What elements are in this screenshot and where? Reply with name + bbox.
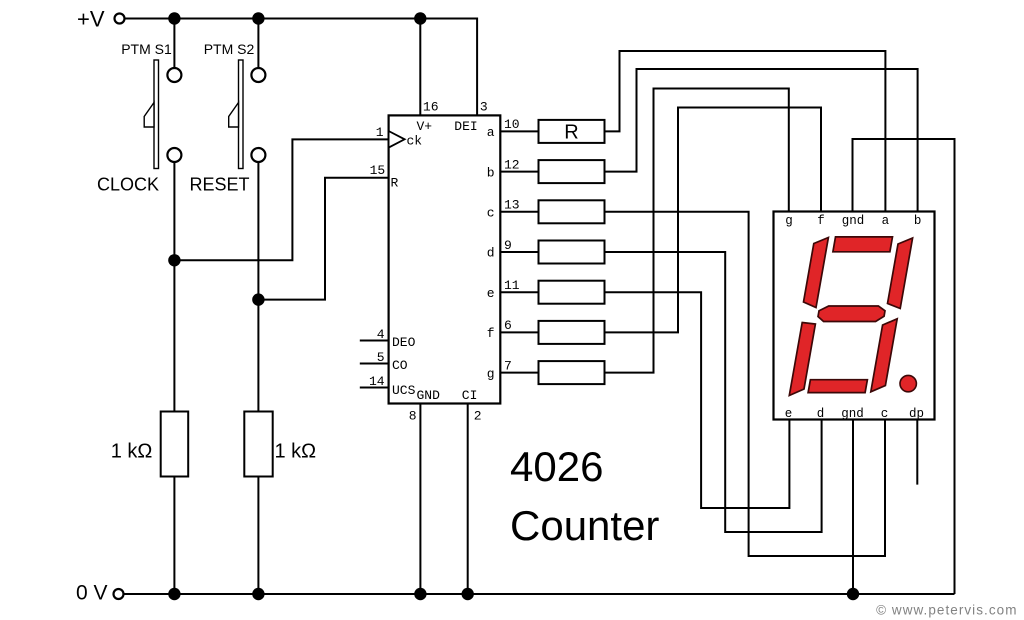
svg-text:a: a xyxy=(487,125,495,140)
svg-text:© www.petervis.com: © www.petervis.com xyxy=(876,603,1017,618)
svg-text:+V: +V xyxy=(77,7,105,32)
svg-text:13: 13 xyxy=(504,198,520,213)
svg-text:b: b xyxy=(914,214,922,228)
svg-text:UCS: UCS xyxy=(392,383,416,398)
svg-text:c: c xyxy=(881,407,889,421)
svg-text:PTM S1: PTM S1 xyxy=(121,41,172,57)
svg-text:4026: 4026 xyxy=(510,443,603,490)
svg-text:gnd: gnd xyxy=(841,407,864,421)
svg-text:5: 5 xyxy=(377,350,385,365)
svg-text:1 kΩ: 1 kΩ xyxy=(275,441,317,463)
svg-text:d: d xyxy=(817,407,825,421)
svg-text:dp: dp xyxy=(909,407,924,421)
svg-text:10: 10 xyxy=(504,117,520,132)
svg-text:CI: CI xyxy=(462,388,478,403)
svg-text:R: R xyxy=(391,176,399,191)
svg-text:9: 9 xyxy=(504,238,512,253)
svg-text:f: f xyxy=(817,214,825,228)
svg-text:g: g xyxy=(487,366,495,381)
svg-text:b: b xyxy=(487,165,495,180)
svg-text:4: 4 xyxy=(377,327,385,342)
svg-text:CLOCK: CLOCK xyxy=(97,175,159,195)
svg-text:DEI: DEI xyxy=(454,119,477,134)
svg-text:16: 16 xyxy=(423,100,439,115)
svg-text:12: 12 xyxy=(504,157,520,172)
svg-text:1 kΩ: 1 kΩ xyxy=(111,441,153,463)
svg-text:GND: GND xyxy=(417,388,441,403)
svg-text:1: 1 xyxy=(376,125,384,140)
svg-text:14: 14 xyxy=(369,374,385,389)
svg-text:3: 3 xyxy=(480,100,488,115)
svg-text:6: 6 xyxy=(504,318,512,333)
svg-text:11: 11 xyxy=(504,278,520,293)
svg-text:DEO: DEO xyxy=(392,335,416,350)
svg-text:d: d xyxy=(487,246,495,261)
svg-text:8: 8 xyxy=(409,409,417,424)
svg-text:15: 15 xyxy=(370,163,386,178)
svg-text:gnd: gnd xyxy=(842,214,865,228)
svg-text:V+: V+ xyxy=(416,119,432,134)
svg-text:f: f xyxy=(487,326,495,341)
svg-text:a: a xyxy=(882,214,890,228)
svg-text:e: e xyxy=(487,286,495,301)
svg-text:g: g xyxy=(785,214,793,228)
svg-text:7: 7 xyxy=(504,358,512,373)
svg-text:c: c xyxy=(487,206,495,221)
svg-text:CO: CO xyxy=(392,358,408,373)
svg-text:Counter: Counter xyxy=(510,502,659,549)
svg-text:PTM S2: PTM S2 xyxy=(204,41,255,57)
svg-text:2: 2 xyxy=(474,409,482,424)
svg-text:RESET: RESET xyxy=(189,175,249,195)
svg-text:e: e xyxy=(785,407,793,421)
svg-text:R: R xyxy=(564,122,578,144)
svg-text:ck: ck xyxy=(407,134,423,149)
svg-text:0 V: 0 V xyxy=(76,582,108,605)
